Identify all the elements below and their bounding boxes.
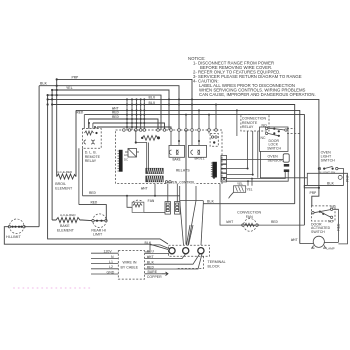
svg-text:PRP: PRP	[72, 76, 80, 80]
contacts NO row	[265, 127, 267, 129]
oven light bulb	[338, 175, 342, 179]
label DOOR ACTIVATED SWITCH	[311, 222, 331, 234]
oven sensor	[283, 154, 289, 172]
junction grid dots	[126, 98, 145, 128]
svg-text:FAN: FAN	[148, 200, 155, 204]
svg-text:120V: 120V	[104, 250, 113, 254]
svg-text:HI-LIMIT: HI-LIMIT	[6, 235, 21, 239]
svg-text:SWITCH: SWITCH	[267, 146, 281, 150]
relay K1 upper-left cluster	[125, 149, 139, 158]
svg-text:RELAYS: RELAYS	[176, 170, 190, 174]
wire y123 bend into DLB	[92, 123, 94, 129]
broil element coil	[57, 174, 76, 179]
svg-text:ELEMENT: ELEMENT	[57, 228, 75, 232]
wire DLB bottom to RED line	[82, 148, 84, 196]
svg-text:WHT: WHT	[141, 187, 149, 191]
svg-text:RED: RED	[112, 116, 120, 120]
wire bus y95	[48, 95, 161, 130]
svg-text:ELEMENT: ELEMENT	[55, 186, 73, 190]
svg-text:RELAY: RELAY	[242, 125, 254, 129]
wire WHT bend to broil	[75, 110, 77, 176]
svg-text:COPPER: COPPER	[147, 275, 162, 279]
wire stubs into oven control top pins	[186, 105, 216, 131]
wire fan left	[127, 196, 132, 208]
svg-text:PRP: PRP	[310, 192, 318, 196]
connection remote relay dashed box	[241, 115, 269, 132]
terminal N	[183, 248, 189, 254]
terminal block dashed box	[169, 245, 210, 256]
terminal block dashed extension	[176, 256, 204, 268]
label TERMINAL BLOCK	[208, 260, 226, 268]
label BAKE ELEMENT	[57, 224, 75, 232]
wire CRR vertical 3	[257, 131, 259, 178]
wire between relays down to terminal	[185, 130, 187, 245]
wire hi-limit to BLK column	[24, 226, 39, 228]
svg-text:LIMIT: LIMIT	[93, 233, 103, 237]
wire left column x47.6 vertical	[48, 95, 168, 244]
labels 120V N L1 L2 GND	[104, 250, 115, 275]
svg-text:CAN CAUSE, IMPROPER AND DANGER: CAN CAUSE, IMPROPER AND DANGEROUS OPERAT…	[199, 92, 316, 97]
hi-limit thermostat left	[8, 219, 25, 234]
relay aux dashed box	[209, 131, 218, 146]
connector squares on right edge of oven control	[221, 155, 227, 182]
junction grid verticals	[127, 99, 144, 130]
supply stubs left	[91, 253, 118, 274]
svg-text:BLU: BLU	[147, 251, 155, 255]
svg-text:BARE: BARE	[148, 270, 158, 274]
svg-text:B LIGHT SW: B LIGHT SW	[319, 171, 336, 175]
pin block 2	[175, 202, 181, 215]
wire RED mid line	[83, 195, 180, 197]
rear hi-limit thermostat	[92, 214, 107, 228]
wire fan bottom to pin blocks	[144, 211, 165, 213]
wire hi-limit left loop to bottom rail	[4, 227, 168, 250]
svg-text:BY CABLE: BY CABLE	[121, 266, 139, 270]
wire sensor loop	[260, 151, 347, 244]
svg-text:WHT: WHT	[226, 221, 234, 225]
convection fan motor	[242, 219, 259, 232]
wire left column x52.1 vertical to bake	[51, 90, 53, 220]
relay coil Z1	[141, 136, 160, 141]
label D.L.B REMOTE RELAY	[85, 151, 101, 164]
connector strip right inside oven control	[211, 162, 217, 178]
svg-text:NC: NC	[328, 220, 333, 224]
wire convection fan right	[257, 224, 304, 226]
wire motor left	[300, 243, 313, 245]
junction cluster below oven control	[179, 186, 181, 201]
svg-text:BAKE: BAKE	[173, 159, 181, 163]
label CONVECTION FAN	[237, 211, 261, 219]
wires exit oven control right bottom	[221, 178, 223, 180]
label WIRE IN BY CABLE	[121, 261, 139, 270]
svg-text:SWITCH: SWITCH	[311, 230, 325, 234]
cable box right wires	[145, 245, 169, 252]
svg-text:BLK: BLK	[207, 201, 215, 205]
connector double-row bottom inside oven control	[146, 168, 163, 182]
wire OC to CRR vertical 1	[227, 131, 248, 169]
svg-text:DC: DC	[124, 158, 128, 162]
wire feed CRR	[236, 110, 238, 136]
svg-text:RED: RED	[112, 112, 120, 116]
wire BLU2 bus	[52, 105, 295, 204]
svg-text:BLK: BLK	[327, 182, 335, 186]
wire DAS right down to motor	[333, 209, 339, 242]
wire sensor loop tap down	[306, 178, 308, 186]
label OVEN SENSOR	[268, 155, 284, 163]
svg-text:RED: RED	[91, 201, 99, 205]
wire RED bend to rear hi-limit	[79, 205, 106, 221]
junction dots top-left cluster	[47, 78, 58, 105]
door lock motor	[311, 236, 327, 248]
wire PRP top bus	[57, 79, 192, 130]
svg-text:LAMP: LAMP	[327, 247, 335, 251]
dashes from DLS to right verticals	[287, 128, 295, 130]
svg-text:BLOCK: BLOCK	[208, 264, 221, 268]
svg-text:BLK: BLK	[145, 242, 153, 246]
wire from pin to coil area	[136, 130, 147, 168]
svg-text:NO: NO	[330, 205, 335, 209]
oven control top pin circles	[123, 129, 218, 132]
wire RED2 bend into DLB	[88, 119, 90, 129]
bare copper ground wire	[145, 273, 162, 275]
D.L.B. remote relay dashed box	[82, 129, 101, 149]
svg-text:BROIL: BROIL	[195, 158, 205, 162]
wire BLK top bus	[39, 86, 179, 130]
svg-text:BLU: BLU	[149, 97, 157, 101]
svg-text:YEL: YEL	[237, 182, 243, 186]
contacts NC row	[265, 132, 267, 134]
pin block 1	[165, 202, 171, 215]
svg-text:4-C-E-RED: 4-C-E-RED	[57, 170, 73, 174]
wire bus y123	[93, 123, 165, 130]
wire WHT stub below oven control	[154, 184, 156, 196]
wire light switch right	[338, 169, 344, 186]
svg-text:RELAY: RELAY	[85, 159, 97, 163]
door activated switch dashed box	[312, 206, 336, 221]
wire curve to terminal area	[229, 192, 234, 198]
terminal L1	[169, 248, 175, 254]
svg-text:YEL: YEL	[247, 188, 253, 192]
oven control dashed box	[116, 130, 222, 184]
wire sensor feed	[227, 159, 283, 161]
junction dot OC bottom right	[213, 176, 215, 178]
door lock switch box	[260, 127, 289, 151]
wire RED1 bus	[84, 115, 304, 226]
svg-text:L2: L2	[109, 265, 113, 269]
wire motor right	[324, 241, 338, 243]
wire y127 bend into DLB	[96, 127, 98, 129]
wire OC to CRR vertical 2	[227, 131, 253, 175]
relay BAKE	[169, 131, 185, 157]
svg-text:NO: NO	[262, 123, 267, 127]
svg-text:YEL: YEL	[66, 87, 74, 91]
svg-text:BLK: BLK	[40, 82, 48, 86]
svg-text:WHT: WHT	[147, 256, 155, 260]
svg-text:BLU: BLU	[149, 102, 157, 106]
contacts	[312, 212, 314, 214]
wire stubs pin blocks up	[167, 184, 169, 202]
wire bus y127	[97, 127, 171, 130]
wire convection fan left	[220, 184, 243, 226]
label DOOR LOCK SWITCH	[267, 139, 281, 151]
wires converge to terminal block	[180, 201, 184, 245]
svg-text:OVEN CONTROL: OVEN CONTROL	[168, 182, 196, 186]
svg-text:RED: RED	[89, 192, 97, 196]
svg-text:L1: L1	[109, 260, 113, 264]
wire BLU1 bus	[48, 99, 319, 205]
relay BROIL	[189, 131, 207, 157]
svg-text:RED: RED	[77, 112, 85, 116]
oven light switch	[321, 151, 336, 163]
wire WHT bus	[76, 110, 300, 243]
connector strip left inside oven control	[118, 150, 123, 172]
wire BLK right	[304, 185, 343, 187]
wire left column PRP vertical to broil	[56, 79, 58, 176]
oven control bottom pin circles	[165, 181, 167, 183]
wire RED1 bend into DLB	[83, 115, 85, 129]
bake element coil	[52, 218, 93, 223]
wire YEL bus	[52, 90, 169, 130]
svg-text:NC: NC	[261, 136, 266, 140]
notice text block	[188, 56, 316, 97]
wire BLK mid line	[203, 203, 294, 205]
svg-text:BLK: BLK	[147, 262, 155, 266]
svg-text:A-C-E-RED: A-C-E-RED	[60, 213, 76, 217]
label REAR HI LIMIT	[91, 228, 106, 236]
svg-text:WHT: WHT	[291, 239, 299, 243]
svg-text:GND: GND	[107, 270, 115, 274]
small connector box below	[234, 186, 246, 193]
pink dotted artifact line	[13, 287, 90, 289]
wire left column BLK vertical	[38, 86, 40, 227]
svg-text:SWITCH: SWITCH	[321, 159, 336, 163]
label BROIL ELEMENT	[55, 182, 73, 190]
svg-text:FAN: FAN	[246, 215, 253, 219]
svg-text:WIRE IN: WIRE IN	[123, 261, 137, 265]
wire in by cable dashed box	[118, 251, 144, 280]
fan motor	[132, 200, 144, 212]
terminal L2	[198, 248, 204, 254]
wire stubs DLB	[88, 123, 90, 129]
wire RED2 bus	[89, 119, 158, 130]
svg-text:PRP: PRP	[346, 174, 350, 182]
svg-text:RED: RED	[271, 221, 279, 225]
